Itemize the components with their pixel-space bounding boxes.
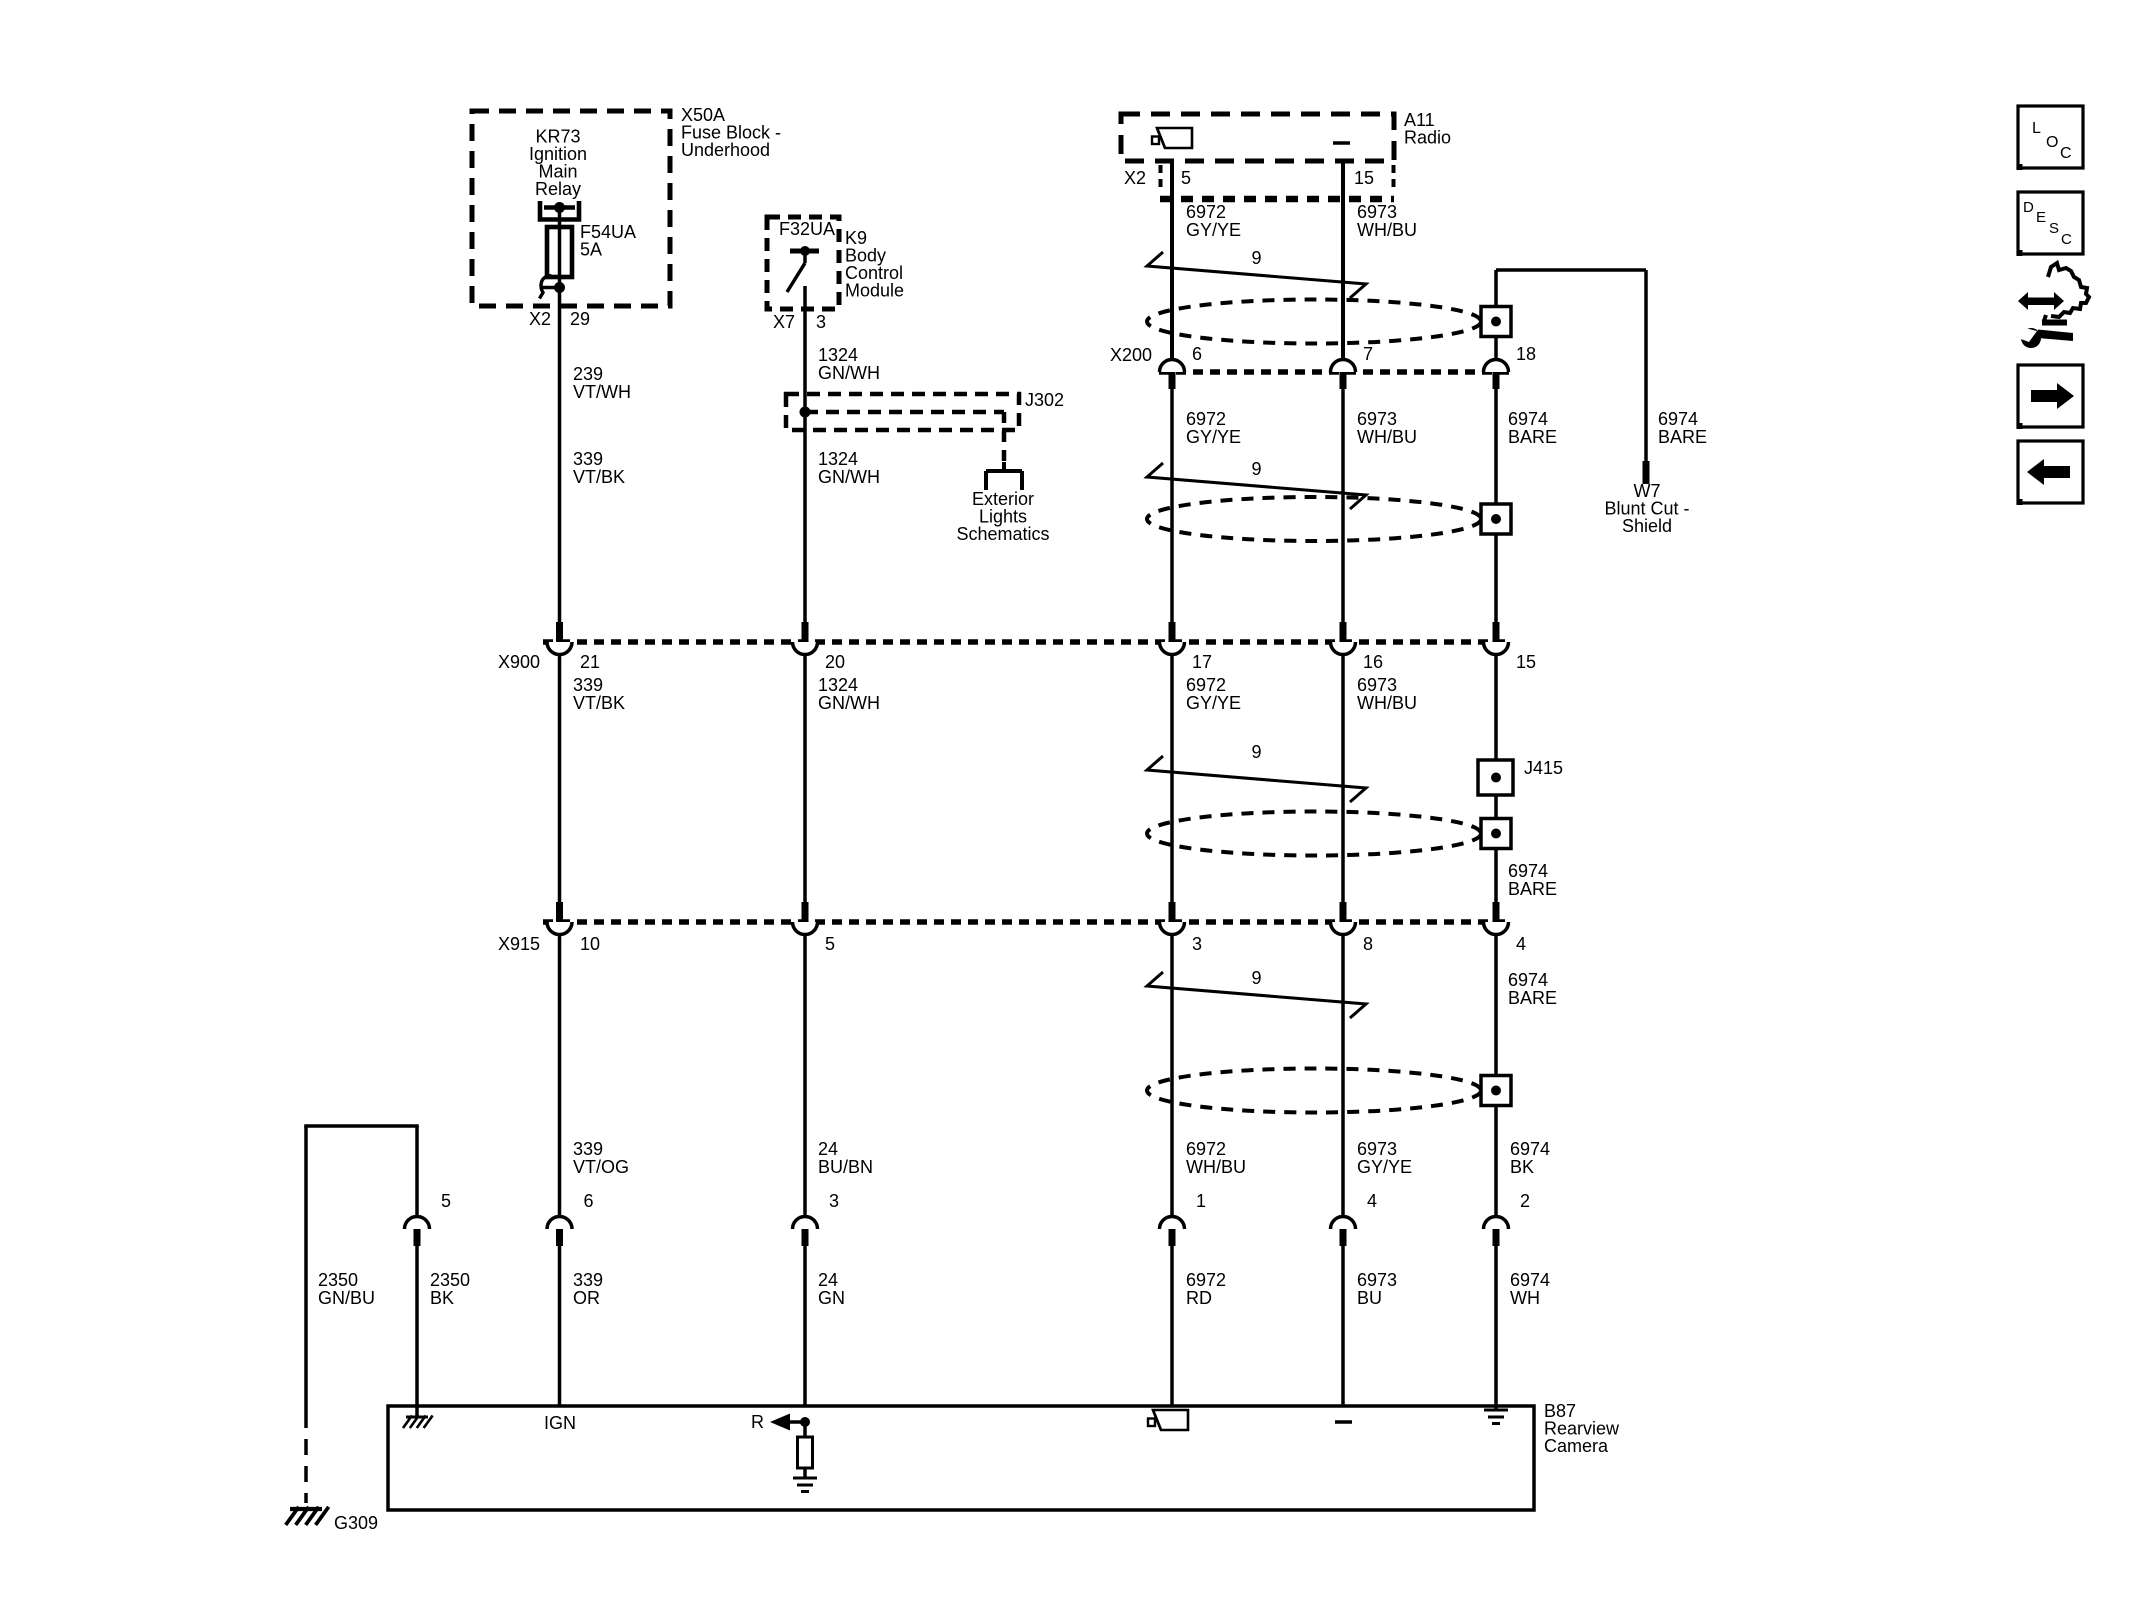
svg-text:16: 16 <box>1363 652 1383 672</box>
svg-text:239: 239 <box>573 364 603 384</box>
svg-text:6973: 6973 <box>1357 1270 1397 1290</box>
svg-text:WH: WH <box>1510 1288 1540 1308</box>
svg-text:17: 17 <box>1192 652 1212 672</box>
svg-text:6: 6 <box>584 1191 594 1211</box>
svg-text:GY/YE: GY/YE <box>1186 427 1241 447</box>
svg-text:E: E <box>2036 209 2046 226</box>
svg-text:5: 5 <box>1181 168 1191 188</box>
svg-text:J302: J302 <box>1025 390 1064 410</box>
svg-text:339: 339 <box>573 1139 603 1159</box>
svg-text:GN/WH: GN/WH <box>818 363 880 383</box>
svg-text:X915: X915 <box>498 934 540 954</box>
svg-text:Radio: Radio <box>1404 128 1451 148</box>
svg-text:BARE: BARE <box>1508 988 1557 1008</box>
svg-text:Camera: Camera <box>1544 1436 1609 1456</box>
svg-text:D: D <box>2023 199 2034 216</box>
svg-text:Module: Module <box>845 281 904 301</box>
svg-text:6974: 6974 <box>1508 409 1548 429</box>
svg-text:9: 9 <box>1251 968 1261 988</box>
svg-text:9: 9 <box>1251 248 1261 268</box>
svg-text:OR: OR <box>573 1288 600 1308</box>
svg-text:X2: X2 <box>529 309 551 329</box>
svg-text:339: 339 <box>573 675 603 695</box>
svg-text:6972: 6972 <box>1186 1139 1226 1159</box>
svg-text:C: C <box>2061 231 2072 248</box>
svg-text:X7: X7 <box>773 312 795 332</box>
svg-text:4: 4 <box>1367 1191 1377 1211</box>
svg-text:6972: 6972 <box>1186 409 1226 429</box>
svg-text:1: 1 <box>1196 1191 1206 1211</box>
svg-text:6: 6 <box>1192 344 1202 364</box>
svg-text:GN/WH: GN/WH <box>818 467 880 487</box>
svg-text:4: 4 <box>1516 934 1526 954</box>
svg-text:BU: BU <box>1357 1288 1382 1308</box>
svg-text:IGN: IGN <box>544 1413 576 1433</box>
svg-text:C: C <box>2060 145 2072 162</box>
svg-text:24: 24 <box>818 1139 838 1159</box>
svg-text:6974: 6974 <box>1508 970 1548 990</box>
svg-text:BU/BN: BU/BN <box>818 1157 873 1177</box>
svg-text:2: 2 <box>1520 1191 1530 1211</box>
svg-text:Shield: Shield <box>1622 516 1672 536</box>
svg-text:Schematics: Schematics <box>956 524 1049 544</box>
svg-text:WH/BU: WH/BU <box>1186 1157 1246 1177</box>
svg-text:GY/YE: GY/YE <box>1186 220 1241 240</box>
svg-text:20: 20 <box>825 652 845 672</box>
svg-text:2350: 2350 <box>318 1270 358 1290</box>
svg-text:J415: J415 <box>1524 758 1563 778</box>
svg-text:GN/WH: GN/WH <box>818 693 880 713</box>
svg-text:O: O <box>2046 134 2058 151</box>
svg-text:X200: X200 <box>1110 345 1152 365</box>
svg-text:3: 3 <box>816 312 826 332</box>
svg-text:339: 339 <box>573 449 603 469</box>
svg-text:GY/YE: GY/YE <box>1357 1157 1412 1177</box>
svg-text:5: 5 <box>441 1191 451 1211</box>
svg-text:3: 3 <box>829 1191 839 1211</box>
svg-text:6972: 6972 <box>1186 1270 1226 1290</box>
svg-text:S: S <box>2049 220 2059 237</box>
svg-text:GN/BU: GN/BU <box>318 1288 375 1308</box>
svg-text:1324: 1324 <box>818 345 858 365</box>
svg-text:WH/BU: WH/BU <box>1357 693 1417 713</box>
svg-text:6974: 6974 <box>1658 409 1698 429</box>
svg-text:6974: 6974 <box>1510 1139 1550 1159</box>
svg-text:RD: RD <box>1186 1288 1212 1308</box>
svg-text:6974: 6974 <box>1508 861 1548 881</box>
svg-text:F32UA: F32UA <box>779 219 835 239</box>
svg-text:VT/BK: VT/BK <box>573 467 625 487</box>
svg-text:10: 10 <box>580 934 600 954</box>
svg-text:G309: G309 <box>334 1513 378 1533</box>
svg-text:6973: 6973 <box>1357 409 1397 429</box>
svg-text:6972: 6972 <box>1186 202 1226 222</box>
svg-text:1324: 1324 <box>818 449 858 469</box>
svg-text:6974: 6974 <box>1510 1270 1550 1290</box>
svg-text:5: 5 <box>825 934 835 954</box>
svg-text:21: 21 <box>580 652 600 672</box>
svg-text:29: 29 <box>570 309 590 329</box>
svg-text:Relay: Relay <box>535 179 581 199</box>
svg-text:7: 7 <box>1363 344 1373 364</box>
svg-text:6972: 6972 <box>1186 675 1226 695</box>
svg-text:6973: 6973 <box>1357 202 1397 222</box>
svg-text:2350: 2350 <box>430 1270 470 1290</box>
svg-text:BARE: BARE <box>1658 427 1707 447</box>
svg-text:24: 24 <box>818 1270 838 1290</box>
svg-text:8: 8 <box>1363 934 1373 954</box>
svg-text:BARE: BARE <box>1508 879 1557 899</box>
svg-text:15: 15 <box>1516 652 1536 672</box>
svg-text:VT/BK: VT/BK <box>573 693 625 713</box>
svg-text:18: 18 <box>1516 344 1536 364</box>
svg-text:9: 9 <box>1251 742 1261 762</box>
svg-text:R: R <box>751 1412 764 1432</box>
svg-text:6973: 6973 <box>1357 675 1397 695</box>
svg-text:Underhood: Underhood <box>681 140 770 160</box>
svg-text:L: L <box>2032 120 2041 137</box>
svg-text:GN: GN <box>818 1288 845 1308</box>
svg-text:9: 9 <box>1251 459 1261 479</box>
svg-text:339: 339 <box>573 1270 603 1290</box>
svg-text:X2: X2 <box>1124 168 1146 188</box>
svg-text:6973: 6973 <box>1357 1139 1397 1159</box>
svg-text:GY/YE: GY/YE <box>1186 693 1241 713</box>
svg-text:5A: 5A <box>580 240 602 260</box>
svg-text:WH/BU: WH/BU <box>1357 220 1417 240</box>
svg-text:BK: BK <box>1510 1157 1534 1177</box>
svg-text:WH/BU: WH/BU <box>1357 427 1417 447</box>
svg-text:VT/WH: VT/WH <box>573 382 631 402</box>
svg-text:3: 3 <box>1192 934 1202 954</box>
svg-text:BK: BK <box>430 1288 454 1308</box>
svg-text:1324: 1324 <box>818 675 858 695</box>
svg-text:X900: X900 <box>498 652 540 672</box>
svg-text:BARE: BARE <box>1508 427 1557 447</box>
svg-text:15: 15 <box>1354 168 1374 188</box>
svg-text:VT/OG: VT/OG <box>573 1157 629 1177</box>
